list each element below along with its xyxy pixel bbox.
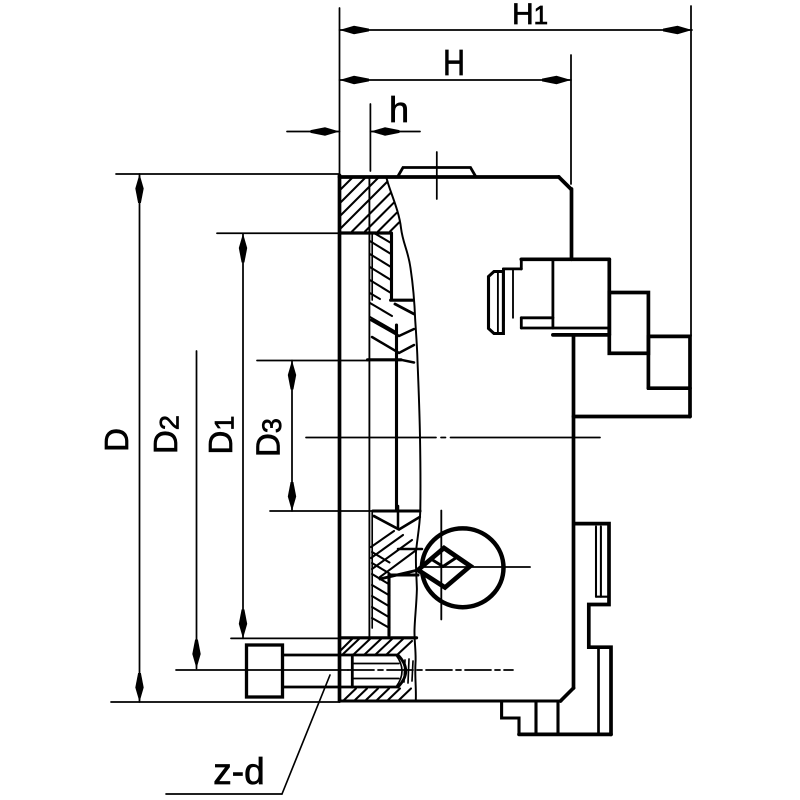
bore step edge (upper) bbox=[368, 358, 402, 361]
top jaw step block 2 bbox=[648, 336, 690, 416]
hatching: body above bolt hole bbox=[341, 639, 412, 655]
svg-text:H: H bbox=[443, 42, 465, 83]
body counterbore step (upper) bbox=[340, 231, 391, 234]
pinion socket corner ticks bbox=[431, 559, 455, 567]
scroll back edge (lower) bbox=[387, 575, 390, 636]
top jaw bbox=[503, 259, 609, 335]
scroll thread chevron 2 bbox=[372, 337, 414, 353]
pinion centre line horizontal bbox=[421, 566, 530, 568]
extension line at jaw outer step (right end of H1) bbox=[690, 6, 692, 336]
pinion centre line vertical bbox=[440, 511, 442, 620]
extension line top of diameter D1 bbox=[217, 232, 340, 234]
hatching: scroll column lower bbox=[372, 552, 390, 628]
scroll bevel edge (lower) bbox=[380, 570, 418, 579]
scroll thread chevron 1 bbox=[371, 320, 414, 336]
hatching: scroll wedge upper bbox=[370, 303, 396, 332]
scroll step (upper) bbox=[391, 299, 413, 302]
dimension H1 bbox=[340, 26, 693, 34]
scroll hub stub (lower) bbox=[397, 506, 400, 529]
scroll thread chevron (lower) bbox=[374, 516, 420, 530]
leader line for z-d bbox=[166, 675, 330, 794]
key boss on body top bbox=[398, 152, 477, 199]
bolt hole top edge bbox=[340, 636, 417, 639]
svg-text:H1: H1 bbox=[512, 0, 548, 31]
top jaw bottom face bbox=[574, 415, 691, 419]
dimension D bbox=[135, 174, 143, 702]
bolt thread end domes bbox=[396, 655, 406, 687]
extension line at body back chamfer (right end of H) bbox=[570, 55, 572, 184]
chuck body outline bbox=[340, 175, 574, 701]
extension line at chuck front face bbox=[339, 8, 341, 176]
extension line bottom of diameter D3 bbox=[270, 510, 373, 512]
extension line bottom of diameter D bbox=[111, 701, 340, 703]
hatching: scroll wedge lower bbox=[371, 531, 415, 577]
bolt axis centre line (also bottom extension of D2) bbox=[176, 669, 513, 671]
dimension h bbox=[287, 127, 420, 135]
scroll plate front edge bbox=[368, 177, 370, 638]
pinion seat edge bbox=[398, 548, 422, 551]
dimension H bbox=[340, 76, 572, 84]
bore step edge extension bbox=[401, 360, 414, 363]
mounting bolt head bbox=[247, 645, 283, 697]
scroll hub edge bbox=[395, 325, 398, 511]
mounting bolt shank bbox=[283, 655, 399, 687]
chuck axis centre line bbox=[306, 437, 600, 439]
bolt thread minor lines bbox=[353, 664, 399, 679]
bottom jaw inner edges bbox=[596, 527, 609, 735]
scroll plate inner edge (lower) bbox=[371, 511, 373, 628]
top jaw step block 1 bbox=[609, 293, 648, 354]
svg-text:z-d: z-d bbox=[213, 751, 264, 792]
svg-text:h: h bbox=[389, 89, 409, 130]
hatching: scroll column upper bbox=[370, 233, 391, 299]
dimension D2 bbox=[192, 351, 200, 669]
svg-text:D: D bbox=[98, 428, 135, 452]
extension line top of diameter D3 bbox=[257, 360, 368, 362]
dimension D1 bbox=[239, 234, 247, 639]
break (wavy) line of partial section bbox=[387, 178, 421, 700]
extension line bottom of diameter D1 bbox=[231, 637, 340, 639]
hatching: body top flange bbox=[341, 178, 399, 232]
bore step edge (lower) bbox=[373, 509, 420, 512]
chuck body bottom face and mounting lug bbox=[340, 701, 612, 734]
pinion socket ellipse bbox=[422, 528, 504, 607]
extension line at scroll front face (right end of h) bbox=[369, 104, 371, 171]
dimension D3 bbox=[288, 361, 296, 512]
scroll back edge (upper) bbox=[390, 233, 393, 299]
top jaw tongue inner edge bbox=[497, 272, 499, 334]
top jaw guide tongue bbox=[489, 272, 504, 334]
top jaw tongue step edge bbox=[512, 269, 514, 318]
bottom jaw outline bbox=[574, 524, 611, 735]
scroll step (lower) bbox=[389, 573, 418, 576]
bolt end shading ticks bbox=[404, 659, 413, 683]
pinion square drive (diamond) bbox=[418, 548, 470, 588]
extension line top of diameter D bbox=[116, 173, 340, 175]
scroll bevel edge (upper) bbox=[395, 304, 414, 314]
hatching: body below bolt hole bbox=[344, 689, 411, 701]
scroll plate inner edge (upper) bbox=[371, 233, 373, 300]
